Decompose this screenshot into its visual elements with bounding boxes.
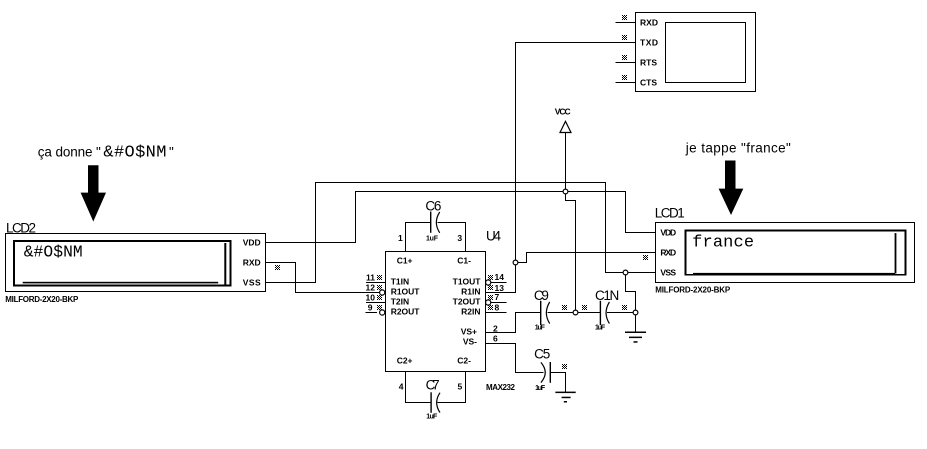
svg-text:RTS: RTS [640, 58, 657, 68]
svg-text:VS-: VS- [463, 336, 477, 346]
svg-text:VCC: VCC [555, 107, 571, 117]
svg-text:U4: U4 [486, 229, 501, 244]
svg-text:10: 10 [366, 293, 376, 303]
svg-text:C6: C6 [425, 199, 441, 214]
svg-text:MAX232: MAX232 [486, 383, 516, 392]
svg-text:VSS: VSS [660, 268, 676, 278]
svg-text:R1IN: R1IN [461, 287, 480, 297]
svg-text:1uF: 1uF [426, 414, 438, 421]
svg-text:france: france [692, 233, 754, 252]
svg-text:RXD: RXD [243, 257, 261, 267]
svg-text:11: 11 [366, 273, 375, 283]
svg-text:R2IN: R2IN [461, 307, 480, 317]
svg-text:T2IN: T2IN [391, 297, 409, 307]
svg-text:2: 2 [493, 324, 498, 334]
svg-text:6: 6 [493, 334, 498, 344]
svg-text:1uF: 1uF [426, 235, 439, 242]
svg-text:14: 14 [495, 272, 505, 282]
svg-text:je tappe "france": je tappe "france" [685, 141, 791, 156]
svg-text:VDD: VDD [660, 227, 676, 237]
svg-text:9: 9 [368, 303, 373, 313]
svg-text:C7: C7 [426, 378, 440, 393]
svg-text:C1+: C1+ [397, 256, 413, 266]
svg-text:C1N: C1N [595, 288, 619, 303]
svg-text:C2-: C2- [457, 356, 471, 366]
svg-text:3: 3 [457, 233, 462, 243]
svg-text:R1OUT: R1OUT [391, 287, 421, 297]
svg-text:C1-: C1- [457, 256, 471, 266]
svg-text:C9: C9 [534, 288, 549, 303]
svg-text:MILFORD-2X20-BKP: MILFORD-2X20-BKP [655, 285, 731, 294]
svg-text:MILFORD-2X20-BKP: MILFORD-2X20-BKP [5, 295, 79, 304]
svg-text:CTS: CTS [640, 78, 657, 88]
svg-text:C5: C5 [534, 347, 550, 362]
svg-text:1uF: 1uF [595, 325, 606, 332]
svg-text:8: 8 [495, 303, 500, 313]
svg-text:1: 1 [398, 233, 403, 243]
svg-text:RXD: RXD [660, 247, 676, 257]
svg-text:4: 4 [399, 382, 404, 392]
svg-text:&#O$NM: &#O$NM [24, 243, 83, 262]
svg-text:RXD: RXD [640, 18, 658, 28]
svg-text:LCD1: LCD1 [655, 206, 685, 221]
svg-text:VSS: VSS [243, 277, 261, 287]
svg-text:T1IN: T1IN [391, 277, 409, 287]
svg-text:5: 5 [458, 382, 463, 392]
svg-text:LCD2: LCD2 [6, 221, 36, 236]
svg-text:TXD: TXD [640, 38, 658, 48]
svg-text:VDD: VDD [243, 237, 261, 247]
svg-text:T1OUT: T1OUT [453, 277, 482, 287]
svg-text:1uF: 1uF [535, 385, 546, 392]
svg-text:12: 12 [366, 283, 376, 293]
svg-text:C2+: C2+ [397, 356, 413, 366]
svg-text:T2OUT: T2OUT [453, 297, 482, 307]
svg-text:R2OUT: R2OUT [391, 307, 421, 317]
svg-text:VS+: VS+ [461, 326, 477, 336]
svg-text:1uF: 1uF [535, 325, 546, 332]
svg-text:7: 7 [495, 292, 500, 302]
